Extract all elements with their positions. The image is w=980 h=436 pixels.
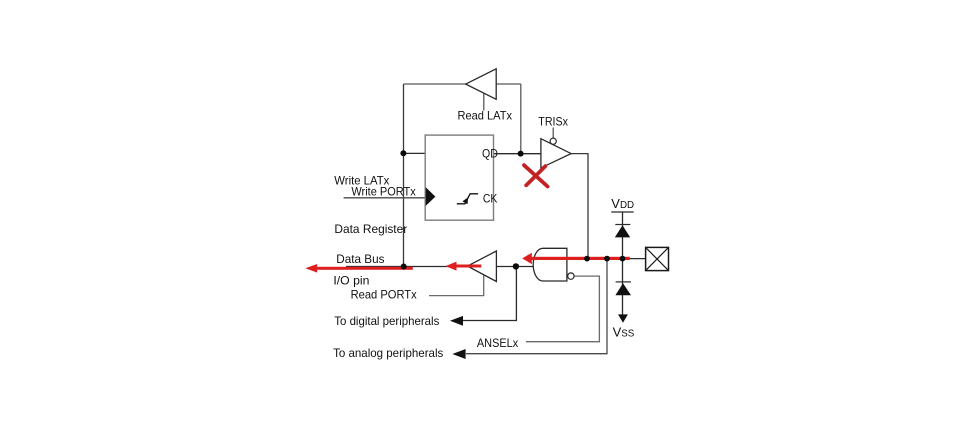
svg-text:Read LATx: Read LATx <box>458 108 513 122</box>
to analog arrowhead <box>452 349 465 359</box>
TRISx enable bubble <box>550 138 556 144</box>
AND gate ANSELx inverted-input bubble <box>568 273 574 279</box>
wire: data bus horizontal <box>346 266 534 268</box>
svg-text:I/O pin: I/O pin <box>333 273 369 287</box>
junction node at data register D <box>400 150 406 156</box>
wire: Q output to TRISx buffer <box>494 153 542 155</box>
wire: VSS clamp branch <box>622 259 624 315</box>
I/O pad <box>646 247 669 270</box>
svg-text:To analog peripherals: To analog peripherals <box>333 346 443 360</box>
buffer U3 Read PORTx <box>468 251 497 282</box>
data register box <box>425 135 493 220</box>
junction node analog tap on pin line <box>604 256 610 262</box>
wire: Write LATx / Write PORTx input <box>344 197 427 199</box>
write input arrow (solid) <box>426 187 436 206</box>
diode D1 to VDD cathode bar <box>615 224 630 226</box>
wire: TRISx output to pin line <box>571 154 588 259</box>
diode D2 to VSS cathode bar <box>616 281 631 283</box>
svg-text:VDD: VDD <box>611 196 634 211</box>
wire: to digital peripherals <box>463 267 517 321</box>
svg-text:VSS: VSS <box>613 324 635 339</box>
buffer U2 TRISx <box>541 139 571 168</box>
svg-text:Write PORTx: Write PORTx <box>351 185 415 199</box>
wire: ANSELx control <box>526 276 600 342</box>
red X over TRISx output <box>524 165 548 186</box>
svg-text:CK: CK <box>483 194 498 206</box>
wire: TRISx enable stub <box>552 128 554 139</box>
svg-text:Data Bus: Data Bus <box>336 252 384 266</box>
wire: VDD clamp branch <box>622 212 624 259</box>
svg-text:TRISx: TRISx <box>538 115 568 129</box>
junction node at gate output <box>513 263 519 269</box>
wire: pin line to pad <box>587 258 646 260</box>
to digital arrowhead <box>450 316 463 326</box>
buffer U1 Read LATx <box>466 69 497 100</box>
wire: data bus vertical (left feedback) <box>403 84 405 267</box>
wire: to analog peripherals <box>466 259 607 354</box>
clock edge symbol <box>457 194 478 204</box>
clock edge arrowhead <box>462 197 468 204</box>
red highlight arrow: through Read PORTx buffer <box>446 262 482 271</box>
wire: TRISx node vertical <box>520 84 522 154</box>
red highlight arrow: pin to input buffer <box>522 253 630 264</box>
svg-text:ANSELx: ANSELx <box>477 336 518 350</box>
junction node TRISx output on pin line <box>584 256 590 262</box>
svg-text:Read PORTx: Read PORTx <box>351 287 417 301</box>
junction node clamp diodes on pin line <box>620 256 626 262</box>
VSS terminal arrow <box>618 314 628 322</box>
junction node at data bus <box>401 264 407 270</box>
wire: LATx feedback top horizontal <box>404 83 521 85</box>
wire: Read LATx enable stub <box>483 93 485 111</box>
VDD rail bar <box>611 211 633 213</box>
AND gate input buffer <box>533 248 567 281</box>
svg-text:QD: QD <box>482 149 498 161</box>
red highlight arrow: data bus <box>305 264 413 273</box>
diode D2 to VSS <box>615 283 631 295</box>
svg-text:To digital peripherals: To digital peripherals <box>334 314 439 328</box>
wire: Read PORTx enable <box>429 274 484 296</box>
diode D1 to VDD <box>615 225 630 237</box>
svg-text:Data Register: Data Register <box>334 222 407 236</box>
junction node at Q / TRISx input <box>518 151 524 157</box>
wire: D input of data register <box>404 152 427 154</box>
